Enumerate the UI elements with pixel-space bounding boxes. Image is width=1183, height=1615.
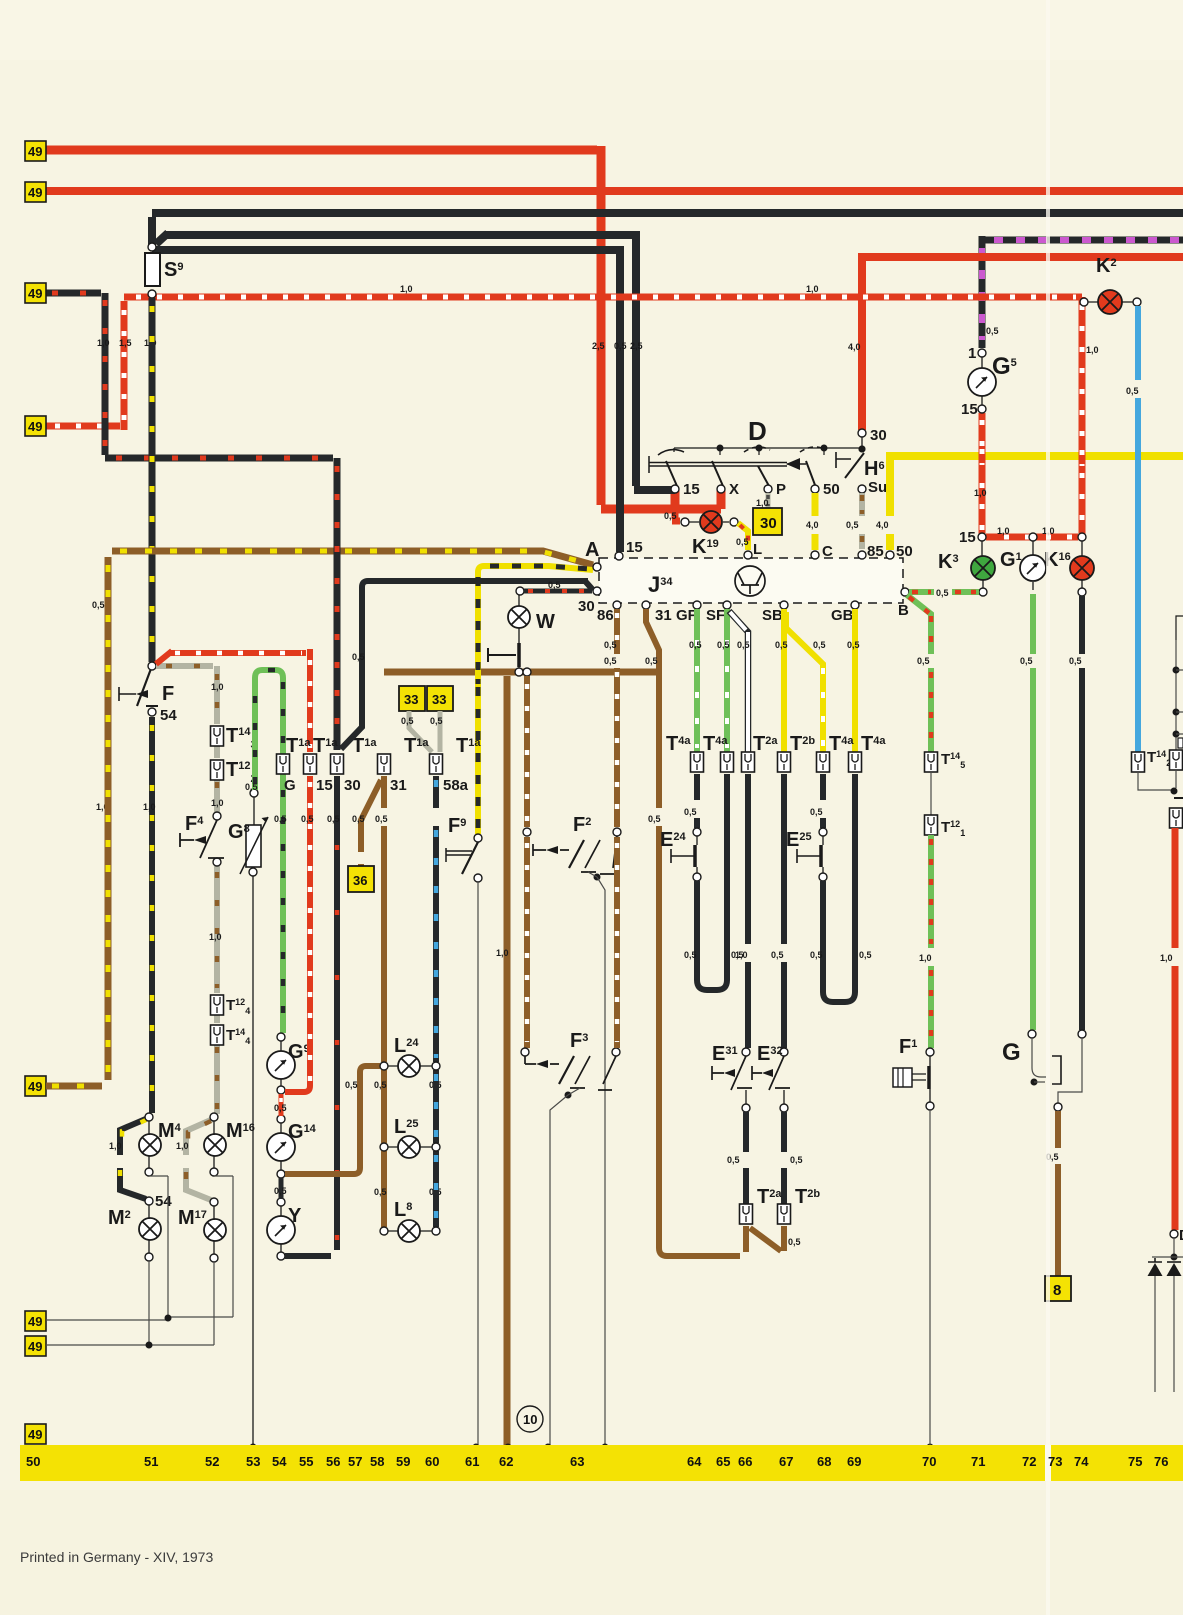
- wire red-white G9 to G14 stub: [279, 1094, 284, 1116]
- svg-text:58: 58: [370, 1454, 384, 1469]
- svg-text:8: 8: [1053, 1282, 1061, 1299]
- svg-text:1,0: 1,0: [400, 284, 413, 294]
- node 10: [517, 1406, 543, 1432]
- wire blue to connector T14-2: [1135, 306, 1141, 752]
- svg-text:59: 59: [396, 1454, 410, 1469]
- connector T4a SB2: [817, 752, 830, 772]
- terminal 33 boxes: [399, 686, 425, 711]
- svg-text:0,5: 0,5: [859, 950, 872, 960]
- wire yellow-white SB branch: [786, 612, 823, 752]
- wire black U loop SB2-GB: [823, 774, 855, 1002]
- svg-text:63: 63: [570, 1454, 584, 1469]
- svg-text:33: 33: [404, 692, 418, 707]
- svg-text:53: 53: [246, 1454, 260, 1469]
- contacts of switch D: [671, 485, 679, 493]
- svg-text:74: 74: [1074, 1454, 1089, 1469]
- svg-text:0,5: 0,5: [664, 511, 677, 521]
- svg-text:58a: 58a: [443, 777, 469, 794]
- connector T1a 15: [304, 754, 317, 774]
- wire yellow relay SB: [781, 609, 787, 752]
- svg-text:F: F: [162, 683, 174, 705]
- svg-text:G: G: [284, 777, 296, 794]
- wire black-yellow F to M4 contact 54: [149, 717, 155, 1113]
- svg-text:15: 15: [959, 529, 976, 546]
- svg-text:50: 50: [896, 543, 913, 560]
- svg-text:4,0: 4,0: [848, 342, 861, 352]
- svg-text:GF: GF: [676, 607, 697, 624]
- gauge G14: [277, 1115, 285, 1123]
- wire black E31 to connector T2a: [743, 1112, 749, 1204]
- switch E31: [742, 1048, 750, 1056]
- lamp K19: [700, 511, 722, 533]
- svg-text:1: 1: [968, 345, 976, 362]
- connector T right edge: [1170, 750, 1183, 770]
- resistor G8: [250, 789, 258, 797]
- relay terminals left A and 30: [593, 563, 601, 571]
- svg-text:0,5: 0,5: [548, 580, 561, 590]
- bottom yellow current track bar: [20, 1445, 1183, 1481]
- connector T1a G: [277, 754, 290, 774]
- lamp K3: [982, 541, 983, 588]
- svg-text:0,5: 0,5: [986, 326, 999, 336]
- wire black bus 3 to relay terminal 15: [152, 246, 620, 552]
- wire brown-white ground bus to switches F2 F3: [524, 676, 530, 1048]
- svg-text:49: 49: [28, 144, 42, 159]
- svg-text:D: D: [748, 416, 767, 446]
- svg-text:0,5: 0,5: [1126, 386, 1139, 396]
- connector T4a GB: [849, 752, 862, 772]
- contact E24: [693, 828, 701, 836]
- svg-text:0,5: 0,5: [810, 807, 823, 817]
- wire black-red over brown-yellow bus: [334, 538, 341, 566]
- svg-text:4,0: 4,0: [876, 520, 889, 530]
- svg-text:76: 76: [1154, 1454, 1168, 1469]
- svg-text:55: 55: [299, 1454, 313, 1469]
- wire red stub contact 15 to lamp K19: [672, 513, 680, 521]
- svg-text:70: 70: [922, 1454, 936, 1469]
- svg-text:0,5: 0,5: [717, 640, 730, 650]
- svg-text:W: W: [536, 611, 555, 633]
- wire yellow-red to relay terminal L: [738, 523, 748, 550]
- wire green-black instrument feed hairpin: [255, 670, 283, 1033]
- svg-text:71: 71: [971, 1454, 985, 1469]
- lamp M16: [210, 1113, 218, 1121]
- svg-text:1,0: 1,0: [209, 932, 222, 942]
- wire grey from F junction through connectors to F4: [156, 666, 217, 1114]
- svg-text:X: X: [729, 481, 739, 498]
- wire brown ground bus: [384, 669, 659, 676]
- svg-text:0,5: 0,5: [790, 1155, 803, 1165]
- gauge G1: [1032, 541, 1034, 590]
- svg-text:0,5: 0,5: [604, 640, 617, 650]
- sender F1: [926, 1048, 934, 1056]
- svg-text:0,5: 0,5: [775, 640, 788, 650]
- connector T4a GF: [691, 752, 704, 772]
- svg-text:4,0: 4,0: [806, 520, 819, 530]
- svg-text:54: 54: [155, 1193, 172, 1210]
- wire brown-white relay 86 to switches: [614, 609, 620, 1048]
- svg-text:1,0: 1,0: [919, 953, 932, 963]
- svg-text:D: D: [1179, 1227, 1183, 1244]
- svg-text:86: 86: [597, 607, 614, 624]
- node F junction: [148, 662, 156, 670]
- svg-text:1,0: 1,0: [109, 1141, 122, 1151]
- svg-text:SF: SF: [706, 607, 725, 624]
- svg-text:0,5: 0,5: [684, 950, 697, 960]
- wire brown-yellow from terminal 49 to relay terminal A: [46, 551, 593, 1086]
- svg-text:P: P: [776, 481, 786, 498]
- svg-text:0,5: 0,5: [614, 341, 627, 351]
- lamp L24: [380, 1062, 388, 1070]
- wire black SB-circuit to E32: [781, 774, 787, 1048]
- wire black G14 to Y stub: [279, 1178, 284, 1199]
- svg-text:1,0: 1,0: [735, 950, 748, 960]
- wire brown instrument lamp feed: [381, 776, 387, 1227]
- wire brown main ground to track 62: [504, 676, 511, 1445]
- svg-text:Su: Su: [868, 479, 887, 496]
- wire black-red from terminal 49 track 3: [46, 293, 337, 750]
- relay terminals bottom: [613, 601, 621, 609]
- svg-text:0,5: 0,5: [274, 814, 287, 824]
- wire black white-circuit to E31: [745, 774, 751, 1048]
- svg-text:GB: GB: [831, 607, 854, 624]
- svg-text:1,0: 1,0: [496, 948, 509, 958]
- svg-text:0,5: 0,5: [1069, 656, 1082, 666]
- svg-text:50: 50: [26, 1454, 40, 1469]
- track numbers: [26, 1454, 1168, 1469]
- svg-text:57: 57: [348, 1454, 362, 1469]
- transistor symbol in J34: [735, 566, 765, 596]
- svg-text:0,5: 0,5: [401, 716, 414, 726]
- svg-text:0,5: 0,5: [846, 520, 859, 530]
- lamp M2: [145, 1197, 153, 1205]
- connector T12-1: [925, 815, 938, 835]
- lamp K16: [1081, 541, 1083, 588]
- wire white SF branch: [729, 611, 748, 752]
- svg-text:49: 49: [28, 1339, 42, 1354]
- switch D blades: [666, 461, 815, 486]
- svg-text:0,5: 0,5: [374, 1187, 387, 1197]
- svg-text:49: 49: [28, 1314, 42, 1329]
- wire yellow relay GB: [852, 609, 858, 752]
- svg-text:B: B: [898, 602, 909, 619]
- svg-text:49: 49: [28, 185, 42, 200]
- svg-text:54: 54: [272, 1454, 287, 1469]
- wire black-yellow headlight feed S9 to switch F: [149, 298, 156, 662]
- svg-text:0,5: 0,5: [736, 537, 749, 547]
- svg-text:0,5: 0,5: [345, 1080, 358, 1090]
- diode D2: [1167, 1261, 1181, 1263]
- wire black-violet bus: [982, 236, 1183, 348]
- svg-text:1,0: 1,0: [211, 798, 224, 808]
- svg-text:51: 51: [144, 1454, 158, 1469]
- svg-text:0,5: 0,5: [737, 640, 750, 650]
- connector T12-4: [211, 995, 224, 1015]
- svg-text:49: 49: [28, 286, 42, 301]
- relay terminals top: [615, 552, 623, 560]
- svg-text:0,5: 0,5: [375, 814, 388, 824]
- gauge Y: [277, 1198, 285, 1206]
- svg-text:0,5: 0,5: [430, 716, 443, 726]
- svg-text:1,0: 1,0: [211, 682, 224, 692]
- connector T2a white: [742, 752, 755, 772]
- svg-text:1,0: 1,0: [997, 526, 1010, 536]
- svg-text:15: 15: [961, 401, 978, 418]
- svg-text:65: 65: [716, 1454, 730, 1469]
- wire black lamp K16 to sender G: [1079, 596, 1085, 1030]
- connector T1a 31: [378, 754, 391, 774]
- svg-text:30: 30: [344, 777, 361, 794]
- wire red-white main bus: [28, 297, 1082, 537]
- connector T right edge 2: [1170, 808, 1183, 828]
- wire black U loop GF-SF: [697, 774, 727, 990]
- svg-text:72: 72: [1022, 1454, 1036, 1469]
- svg-text:1,0: 1,0: [97, 338, 110, 348]
- thin return wires M lamps to terminal 49: [46, 1176, 233, 1345]
- svg-text:52: 52: [205, 1454, 219, 1469]
- svg-text:0,5: 0,5: [604, 656, 617, 666]
- lamp M17: [210, 1198, 218, 1206]
- wire black E32 to connector T2b: [781, 1112, 787, 1204]
- connector T14-3: [211, 726, 224, 746]
- wire black-blue lamp dimmer feed: [433, 776, 439, 1227]
- svg-text:0,5: 0,5: [771, 950, 784, 960]
- wire yellow-black fog switch F9 to relay terminal A: [478, 566, 593, 834]
- svg-text:31: 31: [390, 777, 407, 794]
- svg-text:0,5: 0,5: [917, 656, 930, 666]
- switch F2: [523, 828, 531, 836]
- switch F4: [213, 812, 221, 820]
- svg-text:61: 61: [465, 1454, 479, 1469]
- svg-text:0,5: 0,5: [274, 1103, 287, 1113]
- svg-text:0,5: 0,5: [847, 640, 860, 650]
- wire green-red branch to sender F1: [907, 595, 931, 752]
- wire red bus 1 from terminal 49 to ignition lead: [46, 146, 721, 509]
- svg-text:G: G: [1002, 1039, 1021, 1066]
- gauge G9: [277, 1033, 285, 1041]
- wire gauge labels top left: [97, 284, 861, 352]
- switch D ignition rail: [674, 447, 860, 449]
- wire grey-brown contact Su to relay terminal 85: [859, 493, 865, 549]
- svg-text:0,5: 0,5: [648, 814, 661, 824]
- svg-text:0,5: 0,5: [374, 1080, 387, 1090]
- node contact 54 upper: [148, 708, 156, 716]
- wire grey M16 bypass to M17: [186, 1119, 213, 1200]
- wire brown G14 to lamp L24 link: [285, 1066, 380, 1174]
- svg-text:1,0: 1,0: [1160, 953, 1173, 963]
- svg-text:0,5: 0,5: [245, 782, 258, 792]
- switch F9: [474, 834, 482, 842]
- lamp L25: [380, 1143, 388, 1151]
- wire yellow-black over ground bus: [475, 660, 481, 686]
- wire green relay GF: [694, 609, 700, 752]
- svg-text:0,5: 0,5: [352, 814, 365, 824]
- connector T14-2: [1132, 752, 1145, 772]
- svg-text:2,5: 2,5: [592, 341, 605, 351]
- switch D shaft: [649, 456, 787, 473]
- lamp L8: [380, 1227, 388, 1235]
- svg-text:49: 49: [28, 1079, 42, 1094]
- wire red-white turn signal feed to T1a-15 and gauges: [156, 649, 310, 1092]
- wire yellow contact 50 to relay terminal C: [812, 493, 819, 550]
- switch F3: [521, 1048, 529, 1056]
- svg-text:0,5: 0,5: [352, 652, 365, 662]
- svg-text:66: 66: [738, 1454, 752, 1469]
- switch H6 horn contact: [836, 452, 851, 468]
- connector T14-4: [211, 1025, 224, 1045]
- wire black bus 2 to ignition contact 15: [156, 231, 675, 490]
- svg-text:0,5: 0,5: [301, 814, 314, 824]
- node 30 horn feed: [858, 429, 866, 437]
- svg-text:49: 49: [28, 1427, 42, 1442]
- wire black bus 1 full width: [152, 213, 1183, 246]
- svg-text:50: 50: [823, 481, 840, 498]
- svg-text:10: 10: [523, 1412, 537, 1427]
- wire black relay 30 feed to connector T1a-30: [341, 581, 593, 749]
- connector T4a SF: [721, 752, 734, 772]
- gauge G5 clock: [978, 349, 986, 357]
- svg-text:54: 54: [160, 707, 177, 724]
- svg-text:69: 69: [847, 1454, 861, 1469]
- svg-text:67: 67: [779, 1454, 793, 1469]
- svg-text:0,5: 0,5: [645, 656, 658, 666]
- svg-text:30: 30: [760, 515, 777, 532]
- svg-text:62: 62: [499, 1454, 513, 1469]
- svg-text:30: 30: [870, 427, 887, 444]
- wire green gauge G1 to sender G: [1030, 594, 1036, 1030]
- svg-text:0,5: 0,5: [788, 1237, 801, 1247]
- partial relay box right edge: [1176, 616, 1183, 640]
- page crease: [1046, 0, 1050, 1615]
- wire black-yellow M4 bypass to M2 contact 54: [120, 1118, 148, 1199]
- connector T2a low: [740, 1204, 753, 1224]
- wire brown sender G to terminal 8: [1055, 1111, 1061, 1276]
- svg-text:15: 15: [683, 481, 700, 498]
- wire green-red relay B to lamp K3: [909, 589, 979, 595]
- wire black Y to instrument ground via track 62 riser: [285, 776, 337, 1256]
- connector T12-2: [211, 760, 224, 780]
- svg-text:15: 15: [626, 539, 643, 556]
- connector T1a 58a: [430, 754, 443, 774]
- svg-text:73: 73: [1048, 1454, 1062, 1469]
- svg-text:56: 56: [326, 1454, 340, 1469]
- svg-text:0,5: 0,5: [1020, 656, 1033, 666]
- svg-text:0,5: 0,5: [274, 1186, 287, 1196]
- connector T2b low: [778, 1204, 791, 1224]
- svg-text:33: 33: [432, 692, 446, 707]
- wire grey stubs from 33 boxes to T1a-58a: [409, 711, 440, 752]
- svg-text:1,0: 1,0: [176, 1141, 189, 1151]
- svg-text:0,5: 0,5: [936, 588, 949, 598]
- svg-text:0,5: 0,5: [92, 600, 105, 610]
- wire black SB2 to defogger contact E25: [820, 774, 826, 828]
- terminal 36 box: [348, 866, 374, 892]
- svg-text:0,5: 0,5: [689, 640, 702, 650]
- svg-text:2,5: 2,5: [630, 341, 643, 351]
- wire black-red relay 30 to lamp W node: [524, 589, 592, 594]
- connector T1a 30: [331, 754, 344, 774]
- wire red-white verticals over yellow bus: [979, 446, 986, 468]
- svg-text:31: 31: [655, 607, 672, 624]
- wire red alternator lead: [1172, 828, 1179, 1230]
- svg-text:49: 49: [28, 419, 42, 434]
- switch E32: [780, 1048, 788, 1056]
- svg-text:1,0: 1,0: [756, 498, 769, 508]
- svg-text:1,5: 1,5: [119, 338, 132, 348]
- svg-text:75: 75: [1128, 1454, 1142, 1469]
- wire green relay SF: [724, 609, 730, 752]
- track junction dots: [250, 1444, 257, 1451]
- wire red bus 3 to horn circuit: [862, 253, 1183, 430]
- relay terminal B right: [901, 588, 909, 596]
- fuse S9: [145, 243, 183, 298]
- contact E25: [819, 828, 827, 836]
- wire brown relay 31 ground loop to heated seats: [646, 609, 784, 1256]
- lamp K2: [1086, 301, 1134, 303]
- svg-text:30: 30: [578, 598, 595, 615]
- svg-text:68: 68: [817, 1454, 831, 1469]
- svg-text:15: 15: [316, 777, 333, 794]
- svg-text:Printed in Germany - XIV, 1973: Printed in Germany - XIV, 1973: [20, 1549, 213, 1565]
- svg-text:1,0: 1,0: [974, 488, 987, 498]
- wire green-red to sender F1 lower: [928, 835, 934, 1048]
- wire brown branch to terminal 36: [361, 780, 381, 868]
- svg-text:1,0: 1,0: [143, 802, 156, 812]
- wire black GF to defogger contact E24: [694, 774, 700, 828]
- svg-text:SB: SB: [762, 607, 783, 624]
- switch F: [119, 687, 136, 701]
- svg-text:A: A: [585, 539, 599, 561]
- relay J34 emergency light relay box: [599, 558, 903, 603]
- svg-text:0,5: 0,5: [684, 807, 697, 817]
- svg-text:36: 36: [353, 873, 367, 888]
- diode D1: [1148, 1258, 1162, 1262]
- svg-text:0,5: 0,5: [727, 1155, 740, 1165]
- svg-text:L: L: [753, 541, 762, 558]
- terminal 8 box: [1045, 1276, 1071, 1301]
- svg-text:60: 60: [425, 1454, 439, 1469]
- svg-text:0,5: 0,5: [810, 950, 823, 960]
- wire red bus 2 full width: [46, 187, 1183, 195]
- wire yellow horn feed bus: [886, 456, 1183, 550]
- svg-text:1,0: 1,0: [806, 284, 819, 294]
- lamp W with door contact: [516, 587, 524, 595]
- terminal 49 boxes left margin: [25, 141, 46, 1444]
- connector T2b SB: [778, 752, 791, 772]
- wire grey stub contact P to terminal 30: [766, 493, 771, 508]
- svg-text:64: 64: [687, 1454, 702, 1469]
- lamp M4: [145, 1113, 153, 1121]
- svg-text:0,5: 0,5: [813, 640, 826, 650]
- connector T14-5: [925, 752, 938, 772]
- svg-text:Y: Y: [288, 1205, 302, 1227]
- svg-text:0,5: 0,5: [327, 814, 340, 824]
- terminal 30 box: [753, 508, 782, 535]
- svg-text:1,0: 1,0: [1086, 345, 1099, 355]
